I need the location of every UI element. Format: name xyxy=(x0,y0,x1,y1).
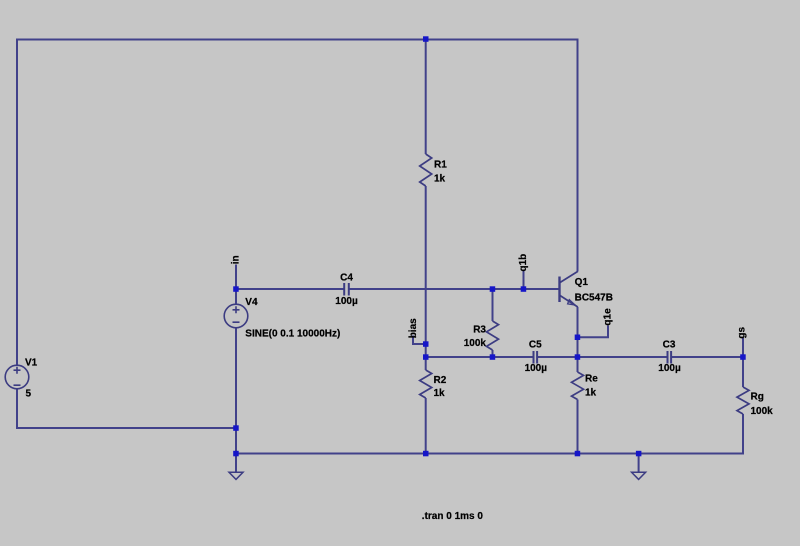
resistor Rg xyxy=(737,387,749,414)
svg-text:q1e: q1e xyxy=(603,308,614,326)
svg-text:1k: 1k xyxy=(434,173,446,184)
junction bottom rail left xyxy=(233,451,239,457)
svg-text:5: 5 xyxy=(26,389,32,400)
junction node bias xyxy=(423,341,429,347)
junction ground right xyxy=(636,451,642,457)
wire R3 top xyxy=(492,289,494,321)
wire mid rail seg4 xyxy=(672,356,744,358)
wire emitter vertical to Re xyxy=(577,307,579,372)
svg-text:100µ: 100µ xyxy=(658,363,681,374)
junction R3 top xyxy=(490,286,496,292)
wire ground stub right xyxy=(638,454,640,473)
transistor Q1 xyxy=(560,271,578,307)
svg-text:100k: 100k xyxy=(751,406,774,417)
wire R2 bottom xyxy=(425,398,427,454)
svg-text:Re: Re xyxy=(585,374,598,385)
junction R3 bottom xyxy=(490,354,496,360)
wire base left of C4 xyxy=(236,288,344,290)
wire left rail upper xyxy=(16,39,18,366)
wire mid rail seg3 xyxy=(578,356,667,358)
resistor Re xyxy=(572,372,584,400)
junction V1 loop xyxy=(233,425,239,431)
resistor R3 xyxy=(487,321,499,350)
svg-text:q1b: q1b xyxy=(518,254,529,272)
wire Rg top xyxy=(742,357,744,387)
ground right xyxy=(632,472,646,479)
wire V4 top xyxy=(235,289,237,305)
svg-text:gs: gs xyxy=(737,326,748,338)
wire ground stub left xyxy=(235,454,237,473)
svg-text:V1: V1 xyxy=(25,358,38,369)
resistor R2 xyxy=(420,370,432,398)
svg-text:Rg: Rg xyxy=(751,391,764,402)
wire node q1e stub xyxy=(578,326,609,338)
resistor R1 xyxy=(420,154,432,186)
capacitor C3 xyxy=(668,351,672,364)
svg-text:V4: V4 xyxy=(245,297,258,308)
wire V4 bottom to bottom rail xyxy=(235,328,237,454)
svg-text:R1: R1 xyxy=(434,160,447,171)
capacitor C4 xyxy=(344,283,349,296)
svg-text:100µ: 100µ xyxy=(335,296,358,307)
junction node in xyxy=(233,286,239,292)
voltage source V1 xyxy=(5,365,29,389)
svg-text:BC547B: BC547B xyxy=(575,293,613,304)
wire R1 top xyxy=(425,39,427,155)
svg-text:.tran 0 1ms 0: .tran 0 1ms 0 xyxy=(422,511,484,522)
wire mid rail seg1 xyxy=(426,356,533,358)
junction node q1b xyxy=(521,286,527,292)
svg-text:C5: C5 xyxy=(529,340,542,351)
wire R3 bottom xyxy=(492,350,494,357)
wire base right of C4 xyxy=(350,288,560,290)
capacitor C5 xyxy=(534,351,538,364)
svg-text:1k: 1k xyxy=(585,388,597,399)
junction emitter rail xyxy=(575,354,581,360)
junction bias rail left xyxy=(423,354,429,360)
wire bottom rail xyxy=(236,453,744,455)
wire Re bottom xyxy=(577,400,579,455)
junction R2 bottom xyxy=(423,451,429,457)
svg-text:bias: bias xyxy=(408,318,419,338)
svg-text:1k: 1k xyxy=(434,388,446,399)
wire R1 to R2 xyxy=(425,186,427,370)
ground left xyxy=(229,472,243,479)
wire node q1b stub xyxy=(523,271,525,290)
wire top rail xyxy=(16,39,579,41)
junction node q1e xyxy=(575,335,581,341)
svg-text:Q1: Q1 xyxy=(575,277,589,288)
wire Rg bottom xyxy=(742,414,744,454)
svg-text:100µ: 100µ xyxy=(525,363,548,374)
wire bottom-left horizontal xyxy=(16,427,236,429)
wire collector vertical xyxy=(577,39,579,272)
wire node in stub xyxy=(235,265,237,290)
svg-text:100k: 100k xyxy=(464,338,487,349)
wire left rail lower xyxy=(16,389,18,430)
svg-text:in: in xyxy=(231,255,242,264)
svg-text:R3: R3 xyxy=(473,324,486,335)
svg-text:SINE(0 0.1 10000Hz): SINE(0 0.1 10000Hz) xyxy=(245,328,340,339)
voltage source V4 xyxy=(224,304,248,328)
junction Re bottom xyxy=(575,451,581,457)
wire mid rail seg2 xyxy=(538,356,578,358)
wire node bias stub xyxy=(413,336,426,345)
svg-text:C3: C3 xyxy=(663,340,676,351)
svg-text:C4: C4 xyxy=(340,273,353,284)
junction at R1 top xyxy=(423,36,429,42)
junction node gs xyxy=(740,354,746,360)
wire node gs stub xyxy=(742,338,744,357)
svg-text:R2: R2 xyxy=(434,375,447,386)
